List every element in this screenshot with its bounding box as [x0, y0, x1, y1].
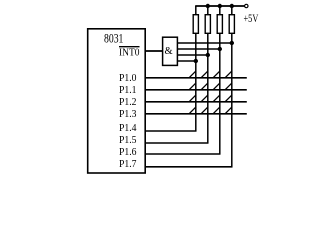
resistor R2 body	[205, 15, 210, 34]
svg-text:8031: 8031	[104, 30, 123, 45]
junction dot rail / R2	[206, 4, 210, 8]
AND gate U2 box	[163, 37, 178, 65]
wire INT0 to AND gate	[145, 50, 162, 52]
key switch S41 (row P1.3 / col 1)	[189, 107, 196, 114]
key switch S22 (row P1.1 / col 2)	[201, 83, 208, 90]
key switch S23 (row P1.1 / col 3)	[213, 83, 220, 90]
row wire P1.2	[145, 101, 247, 103]
resistor R1 body	[193, 15, 198, 34]
key switch S31 (row P1.2 / col 1)	[189, 95, 196, 102]
resistor R4 lead top	[231, 6, 233, 15]
svg-text:+5V: +5V	[244, 11, 259, 25]
key switch S12 (row P1.0 / col 2)	[201, 71, 208, 78]
resistor R1 lead top	[195, 6, 197, 15]
junction dot rail / R3	[218, 4, 222, 8]
column 4 wire (to P1.7)	[231, 33, 233, 167]
key switch S13 (row P1.0 / col 3)	[213, 71, 220, 78]
key switch S44 (row P1.3 / col 4)	[225, 107, 232, 114]
svg-text:P1.7: P1.7	[119, 159, 137, 170]
column 1 wire (to P1.4)	[195, 33, 197, 131]
wire P1.6 to column 3	[145, 153, 220, 155]
AND input wire to column 3	[178, 48, 220, 50]
+5V terminal circle	[245, 4, 248, 7]
wire P1.7 to column 4	[145, 166, 232, 168]
key switch S21 (row P1.1 / col 1)	[189, 83, 196, 90]
overline for INT0	[119, 46, 140, 48]
svg-text:P1.2: P1.2	[119, 97, 137, 108]
AND input wire to column 1	[178, 60, 196, 62]
svg-text:P1.4: P1.4	[119, 123, 137, 134]
AND input wire to column 2	[178, 54, 208, 56]
svg-text:&: &	[165, 46, 173, 57]
resistor R2 lead top	[207, 6, 209, 15]
svg-text:P1.1: P1.1	[119, 85, 137, 96]
svg-text:P1.5: P1.5	[119, 135, 137, 146]
key switch S14 (row P1.0 / col 4)	[225, 71, 232, 78]
row wire P1.3	[145, 113, 247, 115]
key switch S42 (row P1.3 / col 2)	[201, 107, 208, 114]
key switch S11 (row P1.0 / col 1)	[189, 71, 196, 78]
key switch S34 (row P1.2 / col 4)	[225, 95, 232, 102]
junction dot column 3 / AND input	[218, 47, 222, 51]
column 3 wire (to P1.6)	[219, 33, 221, 154]
resistor R3 lead top	[219, 6, 221, 15]
key switch S33 (row P1.2 / col 3)	[213, 95, 220, 102]
key switch S43 (row P1.3 / col 3)	[213, 107, 220, 114]
AND input wire to column 4	[178, 42, 232, 44]
key switch S24 (row P1.1 / col 4)	[225, 83, 232, 90]
svg-text:INT0: INT0	[119, 48, 140, 59]
wire P1.4 to column 1	[145, 130, 196, 132]
+5V supply rail wire	[195, 5, 244, 7]
junction dot column 2 / AND input	[206, 53, 210, 57]
wire P1.5 to column 2	[145, 142, 208, 144]
svg-text:P1.3: P1.3	[119, 109, 137, 120]
junction dot rail / R4	[230, 4, 234, 8]
svg-text:P1.6: P1.6	[119, 147, 137, 158]
column 2 wire (to P1.5)	[207, 33, 209, 143]
svg-text:P1.0: P1.0	[119, 73, 137, 84]
8031 MCU U1 box	[88, 29, 146, 173]
row wire P1.0	[145, 77, 247, 79]
row wire P1.1	[145, 89, 247, 91]
key switch S32 (row P1.2 / col 2)	[201, 95, 208, 102]
resistor R4 body	[229, 15, 234, 34]
junction dot column 1 / AND input	[194, 59, 198, 63]
resistor R3 body	[217, 15, 222, 34]
junction dot column 4 / AND input	[230, 41, 234, 45]
